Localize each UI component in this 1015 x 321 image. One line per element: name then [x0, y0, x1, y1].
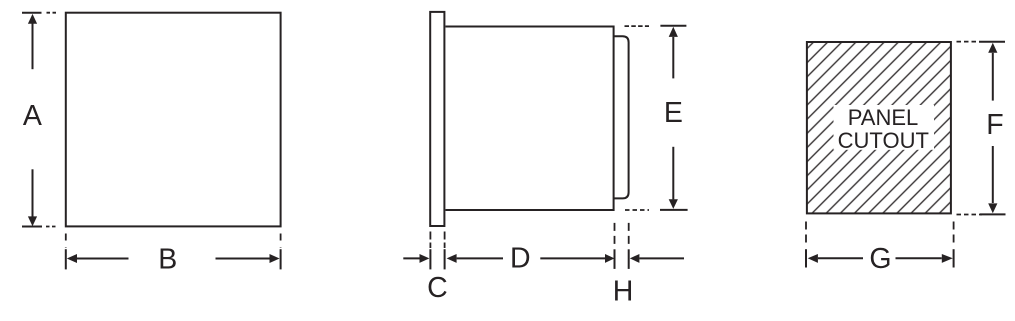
svg-text:G: G [869, 243, 891, 275]
svg-text:CUTOUT: CUTOUT [838, 128, 929, 153]
svg-text:H: H [613, 275, 634, 307]
svg-text:PANEL: PANEL [848, 105, 919, 130]
svg-text:F: F [986, 109, 1003, 141]
svg-text:E: E [664, 97, 683, 129]
svg-text:D: D [510, 242, 531, 274]
svg-text:C: C [427, 272, 448, 304]
svg-text:A: A [23, 100, 42, 132]
svg-text:B: B [158, 244, 177, 276]
